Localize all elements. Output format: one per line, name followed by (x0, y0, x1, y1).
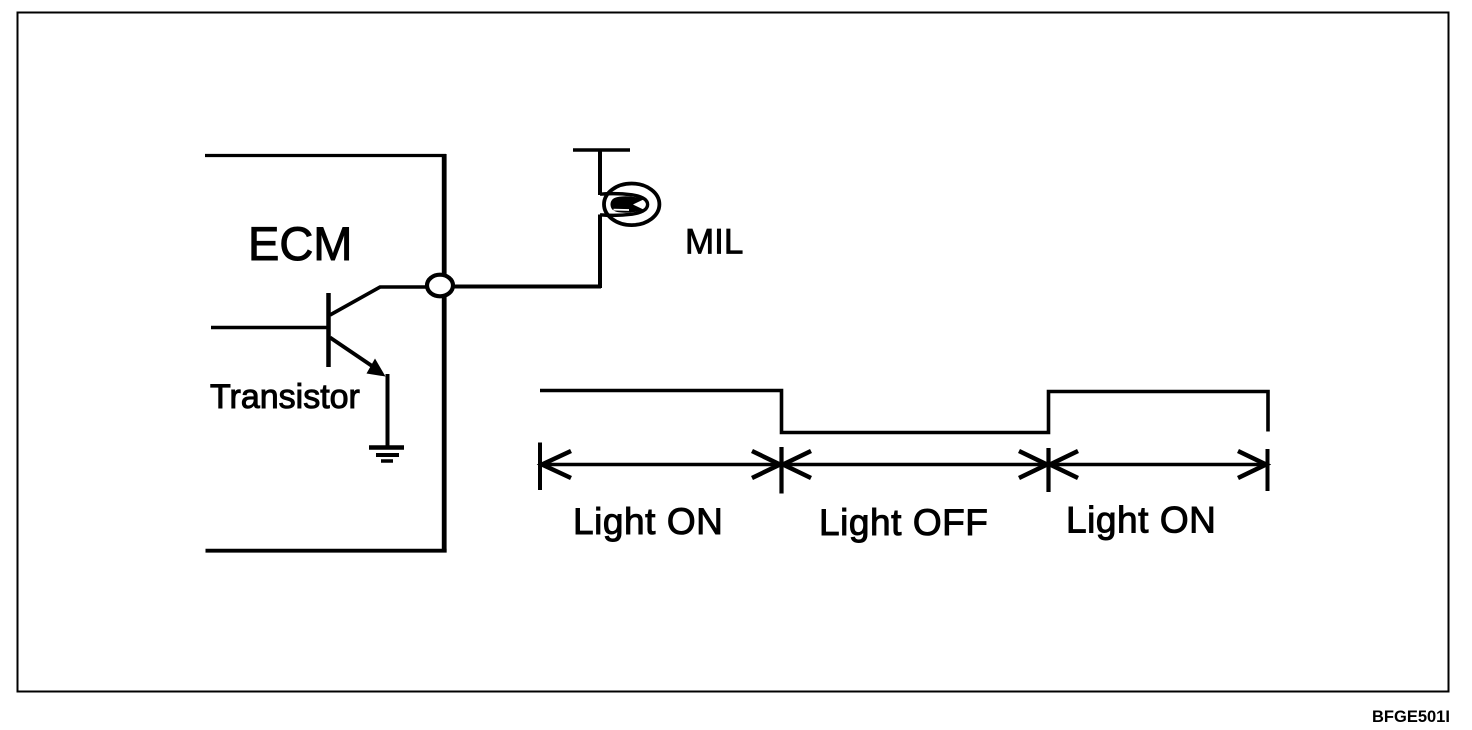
svg-text:Light ON: Light ON (573, 501, 723, 542)
svg-text:ECM: ECM (248, 217, 352, 270)
svg-text:MIL: MIL (685, 223, 743, 262)
svg-text:Light ON: Light ON (1066, 500, 1216, 541)
svg-text:Transistor: Transistor (210, 378, 360, 416)
svg-text:Light OFF: Light OFF (819, 502, 988, 543)
svg-text:BFGE501I: BFGE501I (1372, 708, 1450, 726)
